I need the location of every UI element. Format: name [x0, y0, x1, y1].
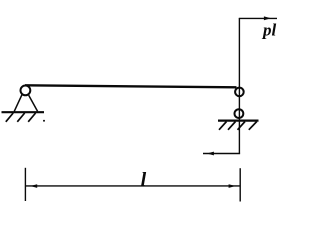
left ground line	[2, 111, 45, 113]
left ground hatch 3	[28, 113, 35, 122]
right ground hatch 1	[219, 122, 227, 130]
left ground hatch 2	[17, 113, 24, 122]
svg-text:pl: pl	[261, 21, 277, 40]
roller upper circle	[235, 88, 244, 97]
right ground hatch 4	[249, 122, 257, 130]
pin support right leg	[29, 95, 38, 111]
pin support left leg	[14, 95, 22, 112]
reaction line (bottom, to the left)	[203, 153, 240, 155]
dimension arrowhead left	[30, 184, 37, 188]
reaction arrowhead pointing left	[207, 152, 214, 156]
force line (top)	[239, 17, 277, 19]
vertical member line (right column)	[238, 18, 240, 153]
dimension right tick	[239, 168, 241, 201]
left ground hatch 1	[6, 113, 13, 122]
right ground hatch 3	[238, 122, 246, 130]
dimension arrowhead right	[229, 184, 236, 188]
beam	[25, 85, 237, 87]
force arrowhead pointing right	[264, 16, 271, 20]
right ground line	[218, 119, 259, 121]
roller lower circle	[235, 109, 244, 118]
pin support hinge circle (left)	[21, 86, 31, 96]
dimension line	[25, 185, 240, 187]
dimension left tick	[24, 168, 26, 201]
svg-text:l: l	[141, 169, 147, 191]
left ground hatch dot	[43, 120, 45, 122]
right ground hatch 2	[228, 122, 236, 130]
